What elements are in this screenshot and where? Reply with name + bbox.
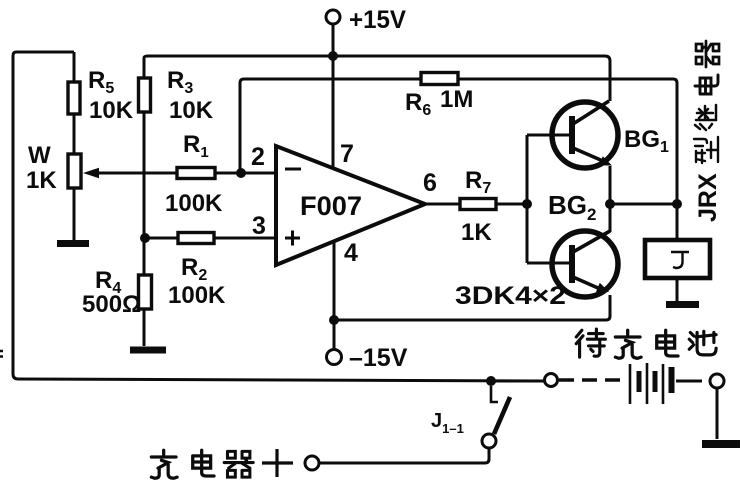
junction node pin3 [140,233,150,243]
ground under R4 [130,347,166,354]
svg-text:3: 3 [252,212,266,240]
potentiometer W body [68,154,81,188]
stray mark at left edge [0,351,3,357]
transistor BG1 collector stroke [573,101,609,124]
svg-text:W: W [28,142,51,169]
transistor BG1 emitter stroke with arrow [573,148,612,166]
potentiometer W wiper arrow [83,168,99,178]
wire dashed link to battery [559,378,624,381]
pin number 3 [252,212,266,240]
svg-text:100K: 100K [168,282,226,309]
label 3DK4x2 [455,282,566,310]
transistor BG1 base bar [569,116,575,154]
wire BG bases column [526,135,529,263]
svg-text:1M: 1M [440,86,473,113]
label charger plus (Chinese) [151,449,293,478]
junction node pin4 / -15V [329,315,339,325]
svg-text:–15V: –15V [349,344,408,372]
label R7 1K [461,167,492,246]
wire right terminal down to ground [716,388,719,439]
svg-text:10K: 10K [169,97,214,124]
wire emitter node to relay node [610,203,677,206]
op-amp plus sign pin3 [285,231,300,246]
label R2 100K [168,254,226,309]
label R1 100K [165,131,223,217]
wire BG1 emitter to BG2 collector [609,166,612,232]
junction node bases [522,199,532,209]
terminal charger plus [305,456,319,470]
label -15V [349,344,408,372]
wire BG1 base lead [527,134,570,137]
ground under relay [666,301,699,308]
transistor BG2 collector stroke [573,231,610,252]
svg-text:10K: 10K [89,97,134,124]
relay label J [671,252,689,268]
resistor R7 [460,199,496,210]
wire relay to ground [676,278,679,301]
label W 1K [26,142,57,194]
wire pin4 node to BG2 emitter [334,295,610,320]
wire left rail from R5 top down and along bottom to switch node [13,52,544,381]
svg-text:2: 2 [251,143,265,171]
label battery to be charged (Chinese) [576,329,716,358]
switch J1-1 pivot terminal [482,434,496,448]
wire +15V lead [332,24,335,56]
resistor R3 [139,78,151,112]
wire top +15V bus from R3 top to BG1 collector drop [144,56,610,101]
svg-text:3DK4×2: 3DK4×2 [455,282,566,310]
svg-text:+15V: +15V [349,6,406,34]
label JRX relay type (vertical) [694,41,722,222]
label BG2 [548,190,596,224]
wire R5 top lead [73,52,76,82]
transistor BG2 emitter stroke with arrow [573,277,609,292]
switch J1-1 fixed contact [491,386,498,402]
switch J1-1 blade [494,397,510,434]
wire non-inverting input: node to pin 3 [145,237,276,240]
terminal -15V [327,350,342,365]
ground under W [57,240,89,247]
terminal battery right [710,374,724,388]
wire charger terminal to switch pivot [319,448,489,463]
label R6 1M [405,86,473,119]
junction node relay drop [672,199,682,209]
resistor R5 [68,82,80,114]
wire battery to right terminal [676,380,702,383]
transistor BG2 base bar [569,245,575,283]
wire feedback bus pin2 up over to relay node [240,79,677,240]
wire -15V lead [333,320,336,349]
svg-text:F007: F007 [300,191,362,221]
label J1-1 [431,410,464,436]
label +15V [349,6,406,34]
wire R5 to W [73,114,76,154]
junction node pin2 [236,168,246,178]
transistor Q1 BG1 circle [552,102,618,168]
op-amp label F007 [300,191,362,221]
resistor R2 [178,233,214,244]
relay coil J box [645,240,710,278]
terminal +15V [326,10,340,24]
wire switch node to open terminal [491,380,544,383]
resistor R6 [421,73,458,85]
label BG1 [624,126,669,156]
terminal battery left [545,374,558,387]
svg-text:JRX: JRX [694,173,722,222]
wire op-amp pin4 lead down [333,240,336,320]
wire W bottom lead to ground [73,188,76,240]
op-amp U1 F007 [276,146,425,265]
wire op-amp pin7 to +15V bus [332,56,335,169]
svg-text:1K: 1K [26,167,57,194]
svg-text:100K: 100K [165,190,223,217]
svg-text:4: 4 [344,239,358,267]
transistor Q2 BG2 circle [552,231,618,297]
resistor R4 [139,275,152,309]
wire BG2 base lead [527,262,570,265]
svg-text:500Ω: 500Ω [82,291,141,318]
svg-text:1K: 1K [461,219,492,246]
svg-text:6: 6 [423,169,437,197]
pin number 2 [251,143,265,171]
battery plates [630,363,672,404]
pin number 6 [423,169,437,197]
junction node switch [486,376,496,386]
junction node on +15V bus [328,51,338,61]
label R4 500ohm [82,267,141,318]
wire op-amp output through R7 to base node [425,203,527,206]
svg-text:7: 7 [340,140,354,168]
ground under battery [702,440,740,448]
wire R3 column through R4 down to ground [143,58,146,346]
op-amp minus sign pin2 [285,168,301,171]
resistor R1 [177,168,215,179]
wire inverting input: W wiper to pin 2 [96,172,276,175]
junction node emitter-collector [605,199,615,209]
label R5 10K [88,67,134,124]
label R3 10K [167,67,214,124]
pin number 4 [344,239,358,267]
pin number 7 [340,140,354,168]
